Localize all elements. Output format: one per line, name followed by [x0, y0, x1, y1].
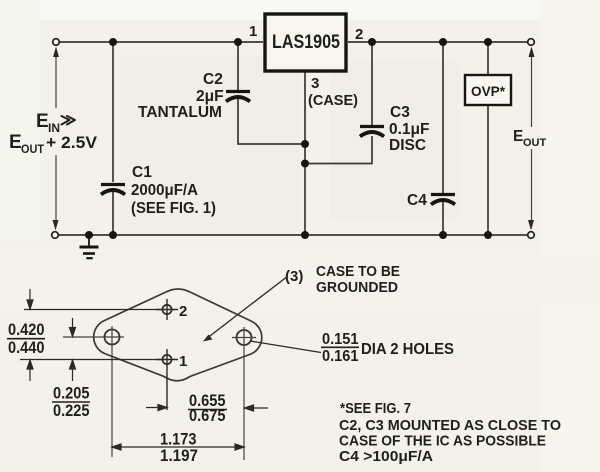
- mounting hole right: [237, 330, 252, 345]
- op-amp U1: LAS1905 regulator box: [265, 14, 346, 71]
- node: junction dots top rail: [109, 38, 492, 46]
- svg-text:0.420: 0.420: [8, 320, 45, 339]
- wire: C2 branch vertical and L to pin3: [237, 42, 239, 90]
- svg-text:C2, C3 MOUNTED AS CLOSE TO: C2, C3 MOUNTED AS CLOSE TO: [339, 417, 561, 434]
- wire: top rail right segment: [348, 41, 531, 43]
- svg-text:0.151: 0.151: [322, 331, 359, 348]
- capacitor C4: [431, 195, 455, 205]
- svg-text:OVP*: OVP*: [471, 83, 506, 99]
- pin 2 symbol: [24, 299, 178, 320]
- wire: pin 3 vertical to ground rail: [304, 72, 306, 235]
- wire: OVP top lead: [487, 42, 489, 75]
- svg-text:0.675: 0.675: [189, 406, 226, 425]
- svg-text:C2: C2: [203, 71, 223, 88]
- ground: [80, 235, 99, 258]
- E_IN annotation arrow line (left rail): [55, 56, 57, 222]
- wire: top rail left segment: [56, 41, 263, 43]
- dimension 0.420/0.440 arrows: [27, 289, 33, 381]
- svg-text:1: 1: [179, 353, 187, 370]
- svg-text:CASE TO BE: CASE TO BE: [316, 264, 400, 280]
- wire: C1 branch vertical: [112, 42, 114, 182]
- wire: OVP bottom lead: [487, 105, 489, 235]
- svg-text:E: E: [9, 132, 22, 153]
- TO-3 case outline: [94, 289, 262, 381]
- svg-text:(SEE FIG. 1): (SEE FIG. 1): [131, 200, 216, 217]
- svg-text:OUT: OUT: [523, 137, 547, 149]
- label: 0.151/0.161 DIA 2 HOLES with leader: [250, 341, 321, 353]
- svg-text:0.161: 0.161: [322, 348, 359, 365]
- wire: bottom ground rail: [55, 234, 531, 236]
- E_OUT annotation arrow line (right rail): [531, 56, 533, 222]
- mounting hole left: [105, 330, 120, 345]
- terminal: output bottom-right: [528, 232, 535, 239]
- svg-text:0.1μF: 0.1μF: [389, 121, 430, 138]
- svg-text:0.205: 0.205: [53, 384, 90, 403]
- svg-text:C4 >100μF/A: C4 >100μF/A: [339, 448, 433, 465]
- svg-text:C1: C1: [132, 164, 152, 181]
- svg-text:E: E: [513, 128, 523, 145]
- svg-text:2: 2: [179, 303, 187, 320]
- wire: C3 top lead: [371, 42, 373, 125]
- svg-text:OUT: OUT: [21, 144, 44, 156]
- svg-text:TANTALUM: TANTALUM: [138, 104, 222, 121]
- capacitor C1: [101, 185, 125, 195]
- svg-text:0.225: 0.225: [53, 401, 90, 420]
- OVP block: [465, 75, 511, 105]
- capacitor C3: [360, 127, 384, 137]
- terminal: input top-left: [53, 39, 60, 46]
- svg-text:LAS1905: LAS1905: [272, 31, 340, 53]
- svg-text:3: 3: [311, 75, 319, 92]
- dimension 0.655/0.675: [146, 405, 268, 412]
- pin 1 symbol: [20, 349, 178, 410]
- svg-text:(CASE): (CASE): [308, 92, 358, 109]
- svg-text:2μF: 2μF: [196, 88, 224, 105]
- node: junction dots on pin3 line: [301, 140, 309, 168]
- svg-text:+ 2.5V: + 2.5V: [46, 133, 98, 152]
- terminal: output top-right: [528, 39, 535, 46]
- svg-text:1: 1: [249, 23, 257, 40]
- svg-text:E: E: [36, 111, 49, 132]
- wire: C4 branch vertical: [442, 42, 444, 193]
- svg-text:DISC: DISC: [389, 137, 426, 154]
- svg-text:*SEE FIG. 7: *SEE FIG. 7: [340, 400, 411, 417]
- svg-text:CASE OF THE IC AS POSSIBLE: CASE OF THE IC AS POSSIBLE: [339, 433, 546, 450]
- svg-text:GROUNDED: GROUNDED: [316, 280, 398, 296]
- svg-text:C4: C4: [407, 192, 427, 209]
- svg-text:2: 2: [355, 26, 363, 43]
- wire: C3 bottom lead to pin3 node: [305, 136, 372, 164]
- svg-text:0.440: 0.440: [8, 338, 45, 357]
- svg-text:DIA 2 HOLES: DIA 2 HOLES: [361, 341, 454, 358]
- terminal: input bottom-left: [52, 232, 59, 239]
- dimension 0.205/0.225 arrows: [70, 318, 76, 381]
- capacitor C2: [226, 92, 250, 102]
- dimension 1.173/1.197: [112, 444, 244, 450]
- svg-text:C3: C3: [390, 104, 410, 121]
- svg-text:2000μF/A: 2000μF/A: [131, 182, 198, 199]
- node: junction dots bottom rail: [85, 231, 492, 239]
- svg-text:1.197: 1.197: [160, 446, 198, 465]
